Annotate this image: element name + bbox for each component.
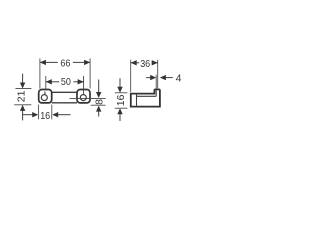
wire arm inner top edge — [137, 95, 157, 97]
arrowhead 21 up — [20, 105, 25, 111]
arrowhead 36 right — [152, 60, 158, 65]
wire arrow tail 21 top — [22, 74, 24, 84]
svg-text:66: 66 — [60, 58, 70, 70]
wire arrow tail 8 top — [98, 80, 100, 93]
svg-text:16: 16 — [115, 94, 127, 106]
side view outer outline — [131, 89, 160, 106]
wire arrow tail 16 side top — [119, 78, 121, 88]
arrowhead 16 front right — [52, 112, 58, 117]
wire extension 4 left — [155, 75, 157, 89]
arrowhead 16 front left — [32, 112, 38, 117]
wire arrow tail 16 front right — [58, 114, 71, 116]
wire extension 21 bottom — [14, 104, 31, 106]
svg-text:50: 50 — [61, 76, 71, 88]
wire extension 16 front left — [38, 105, 40, 120]
svg-text:4: 4 — [176, 73, 182, 85]
wire arrow tail 8 bottom — [98, 111, 100, 117]
svg-text:8: 8 — [94, 99, 106, 105]
wire rail bottom edge — [52, 102, 77, 104]
wire extension 36 right — [157, 60, 159, 88]
node left rosette square — [39, 90, 52, 103]
wire arrow tail 4 right — [165, 77, 173, 79]
arrowhead 66 left — [40, 60, 46, 65]
wire extension 16 side bottom — [115, 107, 128, 109]
arrowhead 16 side up — [117, 108, 122, 114]
arrowhead 50 left — [46, 79, 52, 84]
wire centerline through right hook — [70, 97, 106, 99]
wire dimension line 66 right segment — [73, 61, 90, 63]
arrowhead 4 left — [150, 75, 156, 80]
wire dimension line 50 right segment — [73, 81, 83, 83]
arrowhead 8 down — [96, 92, 101, 98]
node left hook tip circle — [41, 95, 47, 101]
arrowhead 16 side down — [117, 87, 122, 93]
wire lip inner edge — [155, 90, 157, 97]
wire rail top edge — [52, 91, 77, 93]
wire arrow tail 21 bottom — [22, 109, 24, 120]
arrowhead 8 up — [96, 106, 101, 112]
wire arrow tail 4 left — [146, 77, 151, 79]
svg-text:16: 16 — [40, 110, 50, 122]
wire dimension line 36 left segment — [131, 62, 140, 64]
wire dimension line 66 left segment — [40, 61, 58, 63]
node right hook tip circle — [80, 95, 86, 101]
wire extension 50 left — [45, 76, 47, 89]
wire extension 16 front right — [51, 105, 53, 120]
wire left hook arm tick — [44, 92, 46, 95]
svg-text:21: 21 — [16, 90, 28, 102]
arrowhead 50 right — [78, 79, 84, 84]
arrowhead 21 down — [20, 83, 25, 89]
wire dimension line 50 left segment — [46, 81, 59, 83]
wire dimension line 36 right segment — [152, 62, 158, 64]
arrowhead 36 left — [131, 60, 137, 65]
arrowhead 4 right — [160, 75, 166, 80]
wire extension 50 right — [83, 76, 85, 94]
arrowhead 66 right — [84, 60, 90, 65]
wire arrow tail 16 side bottom — [119, 113, 121, 121]
wire extension 8 bottom — [91, 104, 106, 106]
wire extension 66 left — [39, 58, 41, 88]
wire extension 66 right — [89, 58, 91, 88]
wire extension 21 top — [15, 88, 31, 90]
wire plate inner edge — [136, 94, 138, 107]
wire arrow tail 16 front left — [23, 114, 33, 116]
wire extension 16 side top — [115, 92, 128, 94]
node right rosette square — [77, 90, 90, 103]
wire extension 36 left — [130, 60, 132, 92]
svg-text:36: 36 — [140, 58, 150, 70]
